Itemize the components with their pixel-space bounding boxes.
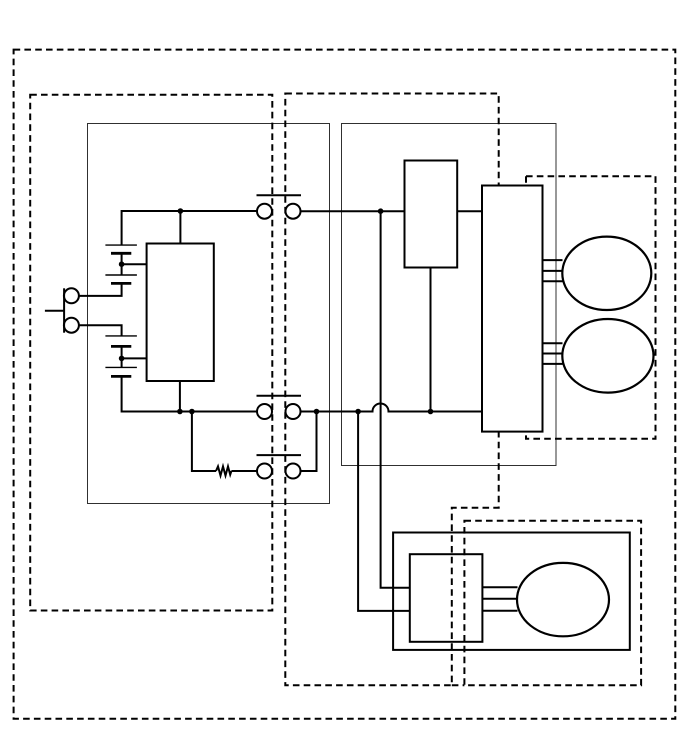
resistor R1 [216, 466, 231, 475]
junction dot U1 bottom [428, 409, 434, 415]
bundle wires U2 to MOT1 [543, 260, 563, 281]
switch S3 circle right [286, 464, 301, 479]
module U1 small top rectangle [405, 161, 458, 268]
enclosure box (middle solid thin) [342, 124, 557, 466]
wire top rail left [122, 211, 258, 245]
connector J1 body line [63, 288, 65, 332]
motor MOT3 ellipse [517, 563, 609, 636]
switch S2 circle left [257, 404, 272, 419]
wire S3 right up to bottom rail [301, 412, 317, 472]
module M1 left component rectangle [147, 244, 214, 382]
bottom assembly solid box [393, 533, 630, 650]
junction dot BT1 tap [119, 261, 125, 267]
bundle wires U2 to MOT2 [543, 343, 563, 364]
wire BT1 bottom to J1 top [79, 283, 122, 296]
dashed boundary bottom bridge segment [452, 684, 465, 686]
wire resistor to S3 [231, 470, 257, 472]
switch S2 actuator bar [257, 395, 302, 397]
wire U1 bottom lead [430, 268, 432, 412]
dashed boundary middle subsystem (L-shaped) [285, 94, 498, 686]
switch S1 actuator bar [257, 194, 302, 196]
wire U1 to U2 [457, 210, 482, 212]
junction dot net B [355, 409, 361, 415]
dashed boundary bottom-right motor subsystem [464, 521, 641, 686]
switch S1 circle left [257, 204, 272, 219]
wire BT1 tap to M1 [122, 263, 147, 265]
wire net A vertical to driver [381, 211, 410, 588]
switch S3 circle left [257, 464, 272, 479]
switch S3 actuator bar [257, 454, 302, 456]
wire BT2 tap to M1 [122, 357, 147, 359]
switch S2 circle right [286, 404, 301, 419]
battery BT1 (top) [105, 245, 136, 283]
motor MOT2 ellipse [562, 319, 653, 393]
junction dot S3 return [314, 409, 320, 415]
motor MOT1 ellipse [562, 237, 651, 310]
wire M1 top lead [179, 211, 181, 244]
connector J1 circle top [64, 288, 79, 303]
wire resistor branch down [192, 412, 216, 472]
junction dot top M1 [178, 208, 184, 214]
wire top rail right of S1 [301, 210, 405, 212]
bottom driver rectangle [410, 554, 483, 642]
switch S1 circle right [286, 204, 301, 219]
battery BT2 (bottom) [105, 336, 136, 377]
controller U2 tall rectangle [482, 186, 543, 432]
connector J1 stub wire [45, 310, 64, 312]
junction dot BT2 tap [119, 356, 125, 362]
wire J1 bottom to BT2 top [79, 325, 122, 336]
junction dot net A top [378, 208, 384, 214]
junction dot M1 bottom [177, 409, 183, 415]
wire net B vertical to driver [358, 412, 410, 611]
bundle wires driver to MOT3 [482, 587, 517, 611]
dashed boundary left subsystem [30, 95, 272, 611]
junction dot resistor branch [189, 409, 195, 415]
wire M1 bottom lead [179, 381, 181, 411]
connector J1 circle bottom [64, 318, 79, 333]
enclosure box (left solid thin) [88, 124, 330, 504]
wire bottom rail with hop [301, 404, 483, 412]
wire BT2 to bottom rail [122, 376, 257, 411]
dashed boundary top-right motors subsystem [526, 176, 656, 439]
